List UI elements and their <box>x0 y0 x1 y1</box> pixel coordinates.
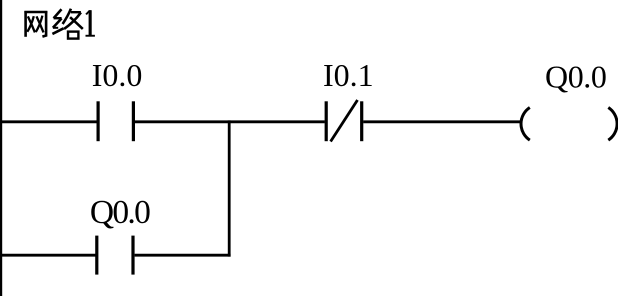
svg-text:Q0.0: Q0.0 <box>90 194 150 231</box>
svg-text:I0.0: I0.0 <box>92 57 143 93</box>
svg-text:I0.1: I0.1 <box>323 57 374 93</box>
svg-text:Q0.0: Q0.0 <box>545 59 607 95</box>
